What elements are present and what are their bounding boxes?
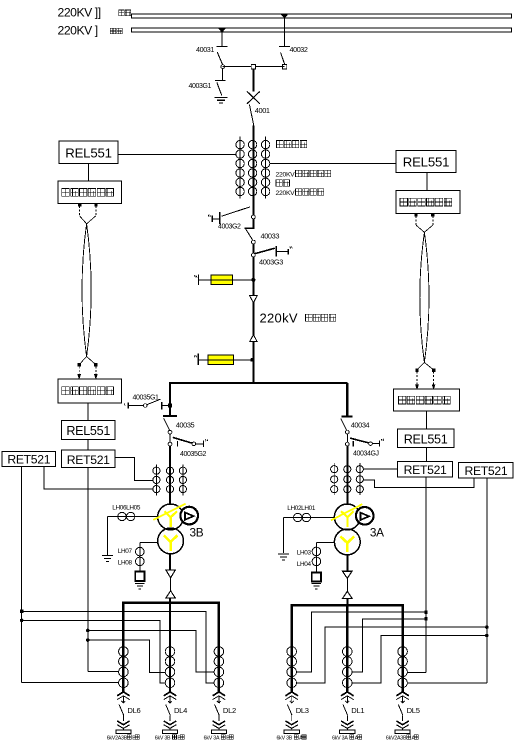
wire 3B CT to transformer: [169, 495, 171, 505]
wire right branch to CT: [346, 446, 348, 504]
transformer 3B HV wye yellow: [164, 511, 177, 527]
relay box REL551 right-bottom: [397, 429, 453, 447]
CT stack feeder DL2: [214, 647, 224, 688]
fiber optic transmission box left-top: [58, 181, 122, 204]
bus bracket DL3: [284, 730, 299, 734]
CT stack transformer 3A: [331, 466, 364, 493]
label 40035: [176, 420, 195, 429]
wire tap E to DL3 row3: [297, 612, 427, 672]
svg-text:LH04: LH04: [297, 561, 312, 568]
busbar 6kV section A header: [291, 604, 404, 606]
surge arrester 1 lead: [199, 279, 254, 281]
earth switch 40034GJ hinge main: [345, 442, 349, 446]
svg-text:40034: 40034: [351, 420, 370, 429]
transformer 3B tertiary winding: [180, 507, 198, 525]
svg-text:LH07: LH07: [118, 548, 133, 555]
node tap G: [485, 626, 488, 629]
wire 3B LV lead: [169, 554, 171, 570]
svg-text:REL551: REL551: [404, 433, 448, 447]
svg-text:6kV 3B: 6kV 3B: [155, 735, 171, 741]
breaker DL4 stem: [168, 696, 172, 703]
label feeder DL2 destination: [204, 735, 234, 741]
relay box REL551 right-top: [396, 150, 456, 172]
CT stack feeder DL5: [398, 647, 408, 688]
label feeder DL1 destination: [332, 735, 362, 741]
breaker DL3 stem: [290, 696, 294, 703]
fiber link dashed stubs left-top: [78, 203, 97, 223]
breaker DL2 blade: [215, 705, 220, 716]
CT stack feeder DL1: [343, 647, 353, 688]
label 40034: [351, 420, 370, 429]
wire feeder DL3 riser: [291, 605, 293, 693]
earth switch 4003G2 terminal: [208, 215, 212, 222]
drawout socket DL4 lower: [164, 715, 177, 730]
busbar 6kV section B header: [122, 601, 220, 603]
wire RET521-L-outer collector: [22, 466, 119, 682]
label 40035G2: [180, 451, 207, 458]
transformer 3B HV winding: [158, 504, 184, 530]
wire LH03 branch: [316, 543, 334, 573]
wire left branch to CT: [169, 446, 171, 504]
wire REL551-R to fiber box: [426, 172, 428, 190]
fiber optic transmission box left-bottom: [58, 379, 122, 403]
transformer 3A tap arrow yellow: [331, 504, 362, 520]
svg-text:REL551: REL551: [66, 424, 110, 438]
wire LH02 line: [284, 517, 335, 519]
svg-text:4003G2: 4003G2: [218, 223, 241, 230]
arrester 3B neutral: [135, 572, 144, 581]
label DL4: [174, 706, 187, 715]
earth switch 40034GJ lead: [372, 443, 379, 445]
breaker DL4 blade: [166, 705, 171, 716]
disconnector 40032 hinge: [282, 64, 286, 68]
node T-junction square: [251, 64, 255, 68]
fiber link dashed stubs right-top: [415, 213, 434, 232]
svg-text:6kV2A3B: 6kV2A3B: [107, 735, 128, 741]
svg-text:RET521: RET521: [464, 464, 507, 478]
earth switch 40035G1 blade: [147, 399, 160, 404]
disconnector 40033 contact: [244, 227, 254, 229]
CT LH05: [127, 512, 135, 520]
wire LH02 down: [283, 518, 285, 554]
wire LH06 line: [108, 516, 158, 518]
earth switch 4003G1 blade: [217, 82, 222, 95]
bus bracket DL1: [340, 730, 355, 734]
transformer 3A HV winding: [334, 504, 360, 530]
svg-text:6kV2A3B: 6kV2A3B: [386, 735, 407, 741]
CT LH02: [294, 513, 302, 521]
earth switch 40035G2 contact bar: [177, 441, 179, 446]
wire 40035 to 40035G2: [169, 434, 171, 442]
wire main drop to CT stack: [252, 126, 254, 229]
cable arrow up: [250, 335, 258, 342]
disconnector 40033 blade: [246, 229, 253, 240]
breaker DL2 stem: [217, 696, 221, 703]
earth switch 4003G2 blade: [222, 207, 251, 216]
wire 3A LV lead: [346, 555, 348, 571]
drawout plug DL6 upper: [117, 692, 130, 700]
label 4001: [255, 106, 270, 115]
wire 3A CT to transformer: [346, 495, 348, 504]
svg-text:REL551: REL551: [65, 146, 111, 161]
earth switch 40035G2 terminal: [203, 439, 207, 447]
surge arrester 1 body: [211, 275, 233, 284]
wire RET521-R-outer collector: [407, 478, 486, 683]
fiber cable loop right: [420, 232, 429, 362]
svg-text:40034GJ: 40034GJ: [353, 451, 379, 458]
label CT row6 220KV busbar protection: [276, 189, 324, 197]
surge arrester 2 terminal: [194, 354, 198, 366]
label feeder DL5 destination: [386, 735, 419, 741]
relay box RET521 left-outer: [2, 451, 56, 466]
label DL3: [296, 706, 309, 715]
drawout contact 3B down: [166, 570, 176, 578]
earth switch 4003G3 lead: [276, 250, 288, 252]
earth switch 40035G1 terminal: [124, 403, 128, 409]
fiber optic transmission box right-top: [396, 190, 460, 213]
wire left branch drop: [169, 383, 171, 416]
node tap E: [425, 611, 428, 614]
svg-text:DL4: DL4: [174, 706, 187, 715]
earth switch 4003G1 contact: [215, 79, 226, 81]
svg-text:220kV: 220kV: [260, 310, 298, 325]
label LH04: [297, 561, 312, 568]
wire RET521-R-inner collector: [407, 477, 426, 672]
earth switch 4003G2 contact bar: [219, 212, 221, 224]
earth switch 4003G2 hinge: [252, 215, 256, 219]
CT LH04: [312, 557, 321, 566]
label 40031: [196, 45, 214, 54]
wire tap D to DL4 row3: [88, 640, 165, 672]
wire LH07 branch: [140, 542, 158, 571]
disconnector 40031 contact: [217, 45, 228, 47]
breaker DL3 blade: [287, 705, 292, 716]
cable arrow down: [250, 296, 258, 303]
bus bracket DL6: [116, 730, 131, 734]
wire CT row2 to REL551 left: [118, 153, 236, 155]
drawout contact 3B up: [166, 591, 175, 598]
fiber link dashed stubs left-bottom: [78, 357, 97, 379]
bus bracket DL2: [211, 730, 226, 734]
earth switch 40035G1 lead: [128, 405, 143, 407]
svg-text:40031: 40031: [196, 45, 214, 54]
relay box REL551 left-bottom: [62, 421, 115, 440]
label 220KV II bus: [58, 6, 131, 20]
disconnector 40034 blade: [341, 419, 347, 431]
drawout socket DL1 lower: [341, 715, 354, 730]
earth switch 40034GJ terminal: [379, 439, 383, 447]
svg-text:LH02LH01: LH02LH01: [287, 505, 316, 512]
node tap B: [20, 619, 23, 622]
node tap A: [20, 610, 23, 613]
wire 3A lead mid: [346, 578, 348, 591]
breaker 4001 blade: [249, 104, 253, 125]
label 220kV cable: [260, 310, 336, 325]
transformer 3B tertiary delta: [185, 512, 194, 519]
CT stack feeder DL6: [119, 647, 129, 688]
CT stack transformer 3B: [153, 467, 187, 493]
svg-text:3A: 3A: [370, 525, 384, 539]
breaker DL5 stem: [401, 696, 405, 703]
drawout plug DL1 upper: [341, 692, 354, 700]
wire tap C to DL2 row3: [88, 630, 214, 672]
node bus II junction marker: [281, 14, 287, 18]
CT stack feeder DL4: [165, 647, 175, 688]
transformer 3A tertiary delta: [360, 513, 369, 520]
disconnector 40032 contact: [279, 45, 290, 47]
svg-text:220KV ]: 220KV ]: [58, 24, 98, 38]
drawout plug DL2 upper: [213, 692, 226, 700]
earth switch 4003G3 terminal: [288, 246, 292, 254]
node tap H: [485, 634, 488, 637]
earth switch 40034GJ contact bar: [352, 441, 354, 447]
svg-text:3B: 3B: [190, 526, 204, 540]
svg-text:RET521: RET521: [67, 453, 110, 467]
drawout plug DL3 upper: [285, 692, 298, 700]
disconnector 40031 hinge: [221, 65, 225, 69]
CT stack main (18 windings): [236, 140, 270, 195]
svg-text:RET521: RET521: [7, 453, 50, 467]
label 40034GJ: [353, 451, 379, 458]
wire right branch drop: [346, 383, 348, 416]
breaker DL5 blade: [398, 705, 403, 716]
earth switch 4003G2 lead: [212, 218, 219, 220]
label DL5: [407, 706, 420, 715]
svg-text:220KV: 220KV: [276, 190, 296, 197]
svg-text:LH06LH05: LH06LH05: [112, 504, 141, 511]
fiber link dashed stubs right-bottom: [416, 363, 435, 390]
node tap D: [86, 639, 89, 642]
node bus I junction marker: [219, 28, 226, 32]
wire tap H to DL1 row4: [352, 636, 487, 683]
label feeder DL3 destination: [276, 735, 306, 741]
wire fiber box to REL551-L2: [87, 403, 89, 421]
svg-text:6kV 3B: 6kV 3B: [276, 735, 292, 741]
fiber cable loop left: [82, 224, 91, 357]
label LH03: [297, 550, 312, 557]
CT column lines 3B: [156, 464, 183, 495]
ground 3A neutral: [312, 583, 322, 588]
disconnector 40033 hinge: [252, 240, 256, 244]
wire 3A lead to bus: [346, 598, 348, 605]
svg-text:6kV 3A: 6kV 3A: [204, 735, 220, 741]
surge arrester 2 body: [208, 355, 234, 364]
wire RET521-L-outer to 3B CT row3: [44, 466, 153, 489]
busbar 220kV II: [132, 14, 512, 18]
svg-text:220KV: 220KV: [276, 171, 296, 178]
transformer 3A LV winding: [334, 529, 360, 555]
busbar 220kV I: [132, 28, 512, 32]
wire link 40031-40032: [223, 66, 285, 68]
relay box RET521 left-inner: [62, 450, 115, 467]
svg-text:LH03: LH03: [297, 550, 312, 557]
transformer 3A LV wye yellow: [341, 536, 355, 552]
wire LH06 down: [107, 517, 109, 555]
breaker DL6 blade: [119, 705, 124, 716]
disconnector 40034 hinge: [345, 430, 349, 434]
svg-text:40035: 40035: [176, 420, 195, 429]
svg-text:DL2: DL2: [223, 706, 236, 715]
node 40035G1 junction: [168, 404, 171, 407]
drawout socket DL3 lower: [285, 715, 298, 730]
label CT row4 220KV fault recorder: [276, 170, 331, 178]
transformer 3A tertiary winding: [356, 507, 374, 525]
disconnector 40032 blade: [281, 53, 285, 65]
wire tap A to DL2 row4: [22, 612, 215, 684]
svg-text:6kV 3A: 6kV 3A: [332, 735, 348, 741]
drawout contact 3A up: [343, 591, 352, 598]
drawout contact 3A down: [343, 571, 353, 578]
svg-text:DL6: DL6: [127, 706, 140, 715]
ground LH02: [278, 554, 289, 560]
earth switch 40035G2 hinge outer: [192, 442, 196, 446]
wire RET521-L-inner to 3B CT row2: [115, 457, 153, 480]
svg-text:220KV ]]: 220KV ]]: [58, 6, 101, 20]
transformer 3A HV wye yellow: [341, 511, 354, 527]
label 4003G3: [259, 257, 283, 266]
earth switch 4003G3 blade: [255, 248, 275, 253]
label 3A: [370, 525, 384, 539]
earth switch 40034GJ blade: [350, 438, 370, 443]
label 3B: [190, 526, 204, 540]
svg-text:40035G2: 40035G2: [180, 451, 207, 458]
CT LH06: [118, 512, 126, 520]
ground 3B neutral: [135, 583, 145, 588]
earth switch 4003G3 hinge: [252, 253, 256, 257]
earth switch 40035G1 hinge: [144, 404, 148, 408]
wire 3A CT row1 to RET521: [363, 468, 397, 470]
transformer 3B LV winding: [158, 528, 184, 554]
wire REL551-R2 to RET521: [426, 447, 428, 461]
wire feeder DL6 riser: [122, 603, 124, 694]
transformer 3B tap arrow yellow: [153, 504, 185, 520]
ground LH06: [102, 556, 113, 562]
node tap C: [86, 629, 89, 632]
drawout socket DL6 lower: [117, 715, 130, 730]
wire feeder DL5 riser: [401, 605, 403, 693]
CT column lines 3A: [334, 463, 360, 495]
svg-text:40033: 40033: [261, 231, 280, 240]
fiber optic transmission box right-bottom: [394, 389, 460, 411]
wire 3B lead to bus: [169, 598, 171, 603]
wire main cable section: [252, 257, 254, 383]
label CT row1 wang-luo-ce-liang: [277, 141, 307, 148]
surge arrester 1 terminal: [194, 274, 198, 285]
wire CT row3 to REL551 right: [270, 163, 396, 165]
wire tap G to DL3 row4: [297, 627, 487, 683]
transformer 3B LV wye yellow: [164, 535, 178, 551]
CT LH07: [136, 547, 145, 556]
disconnector 40034 contact: [341, 415, 352, 417]
wire 40034 to 40034GJ: [346, 434, 348, 442]
svg-text:40032: 40032: [290, 45, 308, 54]
breaker DL1 stem: [345, 696, 349, 703]
arrester 3A neutral: [312, 572, 321, 581]
earth switch 40034GJ hinge outer: [369, 442, 373, 446]
node arrester 2 junction: [251, 358, 254, 361]
disconnector 40035 contact: [163, 415, 177, 417]
wire REL551-L to fiber box: [87, 164, 89, 182]
surge arrester 2 lead: [199, 359, 254, 361]
wire 40033 to 4003G3: [252, 244, 254, 253]
disconnector 40035 blade: [164, 418, 170, 430]
label 220KV I bus: [58, 24, 123, 38]
CT secondary column lines: [240, 137, 266, 199]
svg-text:4003G3: 4003G3: [259, 257, 283, 266]
wire main drop upper: [252, 69, 254, 92]
svg-text:DL3: DL3: [296, 706, 309, 715]
wire 3A CT row2 to RET521 outer: [363, 478, 474, 488]
disconnector 40035 hinge: [168, 430, 172, 434]
svg-text:40035G1: 40035G1: [133, 395, 160, 402]
svg-text:REL551: REL551: [403, 155, 449, 170]
drawout socket DL2 lower: [213, 715, 226, 730]
earth switch 4003G3 contact bar: [275, 246, 277, 256]
bus bracket DL4: [162, 730, 177, 734]
ground 4003G1: [215, 97, 228, 103]
svg-text:LH08: LH08: [118, 559, 133, 566]
label LH08: [118, 559, 133, 566]
wire bus II tap to 40032: [284, 18, 286, 46]
label 4003G1: [189, 83, 212, 90]
svg-text:DL5: DL5: [407, 706, 420, 715]
label 4003G2: [218, 223, 241, 230]
svg-text:4003G1: 4003G1: [189, 83, 212, 90]
disconnector 40031 blade: [217, 52, 222, 65]
wire tap B to DL4 row4: [22, 620, 166, 683]
earth switch 40035G2 blade: [173, 437, 193, 443]
label LH07: [118, 548, 133, 555]
label 40032: [290, 45, 308, 54]
wire bus I tap to 40031: [221, 32, 223, 46]
earth switch 4003G1 stub: [221, 69, 223, 81]
svg-text:4001: 4001: [255, 106, 270, 115]
relay box RET521 right-inner: [398, 462, 453, 478]
breaker 4001 X symbol: [247, 91, 260, 103]
label LH06LH05: [112, 504, 141, 511]
earth switch 40035G2 lead: [196, 443, 203, 445]
relay box REL551 left-top: [59, 141, 118, 164]
svg-text:RET521: RET521: [404, 463, 447, 477]
earth switch 40035G1 stub: [162, 405, 168, 407]
label LH02LH01: [287, 505, 316, 512]
label 40033: [261, 231, 280, 240]
label feeder DL4 destination: [155, 735, 185, 741]
label DL6: [127, 706, 140, 715]
node tap F: [425, 617, 428, 620]
wire tap F to DL1 row3: [352, 619, 426, 672]
CT LH01: [302, 513, 310, 521]
bus bracket DL5: [395, 730, 410, 734]
wire feeder DL4 riser: [169, 603, 171, 694]
drawout plug DL5 upper: [396, 692, 409, 700]
earth switch 40035G2 hinge main: [168, 442, 172, 446]
node arrester 1 junction: [252, 278, 255, 281]
label DL2: [223, 706, 236, 715]
wire fiber box to REL551-R2: [426, 411, 428, 429]
wire feeder DL1 riser: [346, 605, 348, 693]
relay box RET521 right-outer: [459, 463, 514, 479]
label CT row5 spare: [276, 180, 290, 187]
svg-text:DL1: DL1: [351, 706, 364, 715]
label DL1: [351, 706, 364, 715]
CT LH03: [312, 547, 321, 556]
CT stack feeder DL3: [287, 647, 297, 688]
CT LH08: [136, 557, 145, 566]
label feeder DL6 destination: [107, 735, 140, 741]
wire REL551-L2 to RET521: [87, 440, 89, 451]
drawout plug DL4 upper: [164, 692, 177, 700]
